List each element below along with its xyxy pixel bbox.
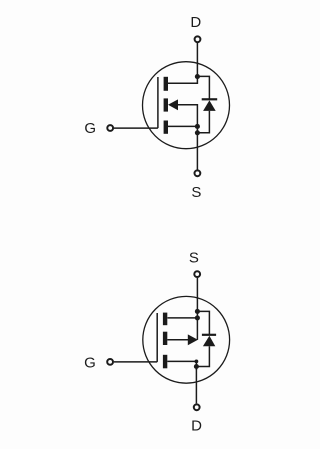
svg-text:S: S [191, 184, 201, 201]
terminal S (Q1) [195, 170, 201, 176]
svg-text:G: G [84, 354, 96, 371]
node source junction dot upper [195, 124, 200, 129]
node drain junction dot [195, 74, 200, 79]
diode D1 body diode triangle [203, 100, 216, 111]
Q2 body channel bar [163, 332, 167, 345]
terminal G (Q1) [107, 125, 113, 131]
wire gate lead [114, 361, 157, 363]
Q2 gate line [156, 313, 158, 362]
terminal D (Q1) [195, 36, 201, 42]
wire body to source node [178, 105, 198, 127]
wire source bar to source node [168, 125, 197, 127]
node source junction dot lower [195, 315, 200, 320]
wire diode anode to drain node [196, 346, 209, 366]
terminal S (Q2) [194, 271, 200, 277]
wire source lead down to body arrow tip [196, 278, 198, 340]
diode D1 cathode bar [202, 98, 218, 100]
node drain junction dot [194, 364, 199, 369]
Q2 substrate arrow (points out of channel, P-channel) [188, 334, 198, 345]
wire drain lead to top channel bar [168, 43, 198, 83]
Q2 source channel bar [163, 313, 167, 326]
Q1 body channel bar [164, 98, 168, 111]
wire source to diode cathode branch [197, 311, 209, 334]
transistor Q1 N-channel MOSFET envelope [143, 62, 230, 149]
Q1 substrate arrow (points into channel, N-channel) [168, 99, 178, 110]
node drain bar corner dot [195, 360, 199, 364]
wire gate lead [114, 127, 158, 129]
node source junction dot upper [195, 309, 200, 314]
svg-text:G: G [84, 120, 96, 137]
Q1 source channel bar [164, 121, 168, 134]
wire diode anode to source node [197, 111, 209, 133]
svg-text:S: S [189, 250, 199, 267]
wire body bar to substrate arrow [167, 339, 188, 341]
terminal G (Q2) [107, 359, 113, 365]
wire drain to diode cathode branch [197, 76, 209, 99]
wire top channel bar to source node [168, 317, 198, 319]
wire source lead [196, 126, 198, 169]
node source junction dot lower [195, 130, 200, 135]
diode D2 body diode triangle [203, 336, 215, 347]
diode D2 cathode bar [202, 334, 216, 336]
Q1 drain channel bar [164, 77, 168, 91]
wire drain lead [195, 367, 197, 404]
svg-text:D: D [190, 14, 201, 31]
terminal D (Q2) [194, 404, 200, 410]
svg-text:D: D [191, 417, 202, 434]
wire drain bar to drain lead [167, 361, 196, 370]
Q2 drain channel bar [163, 355, 167, 369]
Q1 gate line [157, 77, 159, 128]
transistor Q2 P-channel MOSFET envelope [143, 296, 230, 383]
